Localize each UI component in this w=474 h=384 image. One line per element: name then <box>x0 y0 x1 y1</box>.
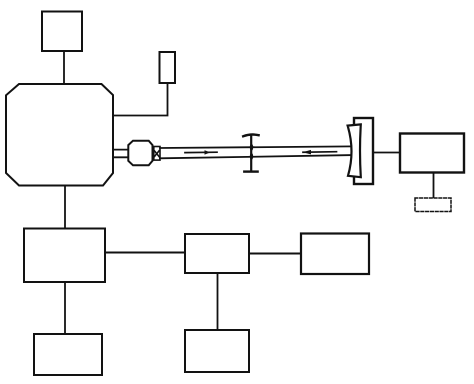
box A (left, below octagon) <box>24 229 105 283</box>
wire: top-left box to octagon <box>63 51 65 84</box>
wire: mirror mount to right box <box>373 152 400 154</box>
box B (middle) <box>185 234 249 273</box>
coupler with hatch <box>154 147 160 161</box>
mirror mount block <box>354 118 373 184</box>
wire: right box to dashed box <box>433 173 435 199</box>
box C (right of middle row) <box>301 234 369 275</box>
wire: octagon bottom to box A <box>64 186 66 229</box>
beam upper line <box>160 146 352 148</box>
wire: box A down to box D <box>64 282 66 334</box>
box: detector (right) <box>400 134 464 173</box>
arrow pointing right inside beam <box>185 150 217 154</box>
lens housing barrel <box>128 141 152 166</box>
beam lower line <box>160 155 352 158</box>
iris / sample plane marker crossing the beam <box>243 135 258 172</box>
wire: box B to box C <box>249 253 301 255</box>
wire: box B down to box E <box>217 273 219 330</box>
dashed box <box>415 198 451 212</box>
wire: box A to box B <box>105 252 185 254</box>
arrow pointing left inside beam <box>303 150 337 155</box>
octagon: main chamber body <box>6 84 113 186</box>
flange stub (two parallel lines) <box>113 150 128 158</box>
box U1 (top-left small box) <box>42 12 82 52</box>
box D (bottom left) <box>34 334 102 375</box>
box E (bottom middle) <box>185 330 249 372</box>
wire: top-middle box down and left to octagon <box>113 83 168 116</box>
concave mirror (meniscus lens) <box>348 124 361 177</box>
box U2 (small top-middle box) <box>160 52 176 83</box>
